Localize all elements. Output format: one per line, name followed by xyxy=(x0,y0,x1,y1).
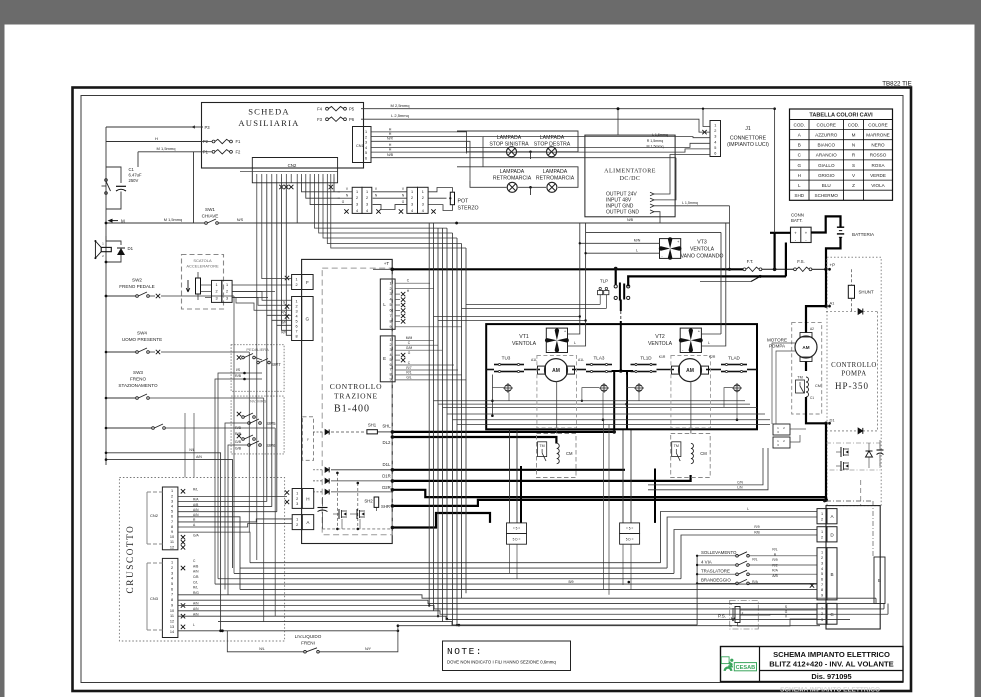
svg-text:LAMPADA: LAMPADA xyxy=(543,169,568,175)
label A1L xyxy=(531,358,584,362)
svg-text:Z: Z xyxy=(852,183,855,188)
svg-text:R/1: R/1 xyxy=(406,371,411,375)
diode DL2 row xyxy=(313,429,364,434)
svg-text:VENTOLA: VENTOLA xyxy=(690,247,715,253)
svg-text:P3: P3 xyxy=(205,125,211,130)
svg-text:+P: +P xyxy=(830,263,836,268)
svg-text:R/N: R/N xyxy=(281,331,287,335)
connector C (right) xyxy=(817,603,837,624)
pump controller dotted box xyxy=(827,257,881,505)
svg-text:R/B: R/B xyxy=(235,432,242,436)
svg-text:2: 2 xyxy=(714,129,716,133)
svg-text:R/B: R/B xyxy=(754,531,760,535)
wires into pot pair1 xyxy=(338,192,353,205)
svg-text:DL2: DL2 xyxy=(383,440,391,445)
svg-text:POMPA: POMPA xyxy=(841,371,866,378)
svg-text:K1R: K1R xyxy=(659,355,666,359)
thick wire DL2-CM1 xyxy=(391,435,557,443)
svg-text:G/B: G/B xyxy=(235,440,242,444)
capacitor B1-400 xyxy=(318,497,328,529)
accel potentiometer xyxy=(186,272,200,300)
svg-text:AM: AM xyxy=(552,368,560,374)
svg-text:1: 1 xyxy=(411,190,413,194)
TLP thick wires xyxy=(621,276,786,371)
svg-text:A/N: A/N xyxy=(193,570,199,574)
pump capacitor xyxy=(877,440,884,466)
P.S. dashdot box xyxy=(730,600,759,629)
svg-text:1: 1 xyxy=(226,283,228,287)
svg-text:1: 1 xyxy=(821,530,823,534)
svg-text:14: 14 xyxy=(170,630,174,634)
wire L 2,5mmq xyxy=(361,113,710,132)
svg-text:H: H xyxy=(389,148,392,152)
cn2 drops to G xyxy=(267,183,292,512)
svg-text:1: 1 xyxy=(296,491,298,495)
thick CM1 verticals xyxy=(510,429,522,523)
svg-text:4: 4 xyxy=(366,209,368,213)
svg-text:TLP: TLP xyxy=(600,278,608,283)
svg-text:F.S.: F.S. xyxy=(797,259,805,264)
svg-text:CM: CM xyxy=(815,384,821,388)
svg-text:R/B: R/B xyxy=(235,426,242,430)
battery thick wires xyxy=(770,107,841,276)
CN2 x-marks xyxy=(279,185,333,189)
accelerator box SCATOLA ACCELERATORE xyxy=(182,255,224,310)
svg-text:STAZIONAMENTO: STAZIONAMENTO xyxy=(118,383,158,388)
svg-text:CN1: CN1 xyxy=(356,144,364,148)
wire M to scheda xyxy=(138,146,202,223)
svg-text:LAMPADA: LAMPADA xyxy=(500,169,525,175)
note box xyxy=(443,641,571,671)
contactor TLA3 xyxy=(586,363,612,372)
svg-text:SCHEDA: SCHEDA xyxy=(248,107,290,117)
svg-text:F3: F3 xyxy=(317,117,323,122)
relay box left wires xyxy=(510,420,610,595)
svg-text:CM: CM xyxy=(566,451,573,456)
svg-text:1: 1 xyxy=(296,278,298,282)
svg-text:Dis. 971095: Dis. 971095 xyxy=(811,672,851,681)
svg-text:TB822 TIE: TB822 TIE xyxy=(882,81,911,88)
pump TM switch xyxy=(796,376,805,394)
svg-text:9: 9 xyxy=(171,530,173,534)
svg-text:SOLLEVAMENTO: SOLLEVAMENTO xyxy=(701,550,737,555)
fuse F.T. xyxy=(743,259,793,271)
svg-text:N/Y: N/Y xyxy=(365,647,372,651)
P.S. wires xyxy=(738,605,818,626)
sheet inner border xyxy=(81,96,903,683)
contactor TLP xyxy=(614,267,630,301)
svg-text:D2R: D2R xyxy=(382,485,391,490)
svg-text:C/L: C/L xyxy=(193,580,198,584)
pump +P vertical xyxy=(825,269,827,306)
lamp retromarcia 1 xyxy=(507,182,517,192)
fuse F4-P5 xyxy=(317,107,355,112)
svg-text:L: L xyxy=(383,302,386,307)
+T power bus xyxy=(373,268,744,272)
svg-text:TRASLATORE: TRASLATORE xyxy=(701,569,730,574)
label SCHEDA AUSILIARIA xyxy=(238,107,299,129)
svg-text:R 1,5mmq: R 1,5mmq xyxy=(647,139,664,143)
svg-text:2: 2 xyxy=(365,135,367,139)
svg-text:5: 5 xyxy=(365,151,367,155)
svg-text:6: 6 xyxy=(171,515,173,519)
svg-text:R/L: R/L xyxy=(752,558,757,562)
svg-text:BATT.: BATT. xyxy=(791,218,803,223)
svg-text:6: 6 xyxy=(389,363,391,367)
svg-text:TM: TM xyxy=(539,444,544,448)
svg-text:VIOLA: VIOLA xyxy=(871,183,885,188)
svg-text:A1L: A1L xyxy=(578,358,584,362)
label LAMPADA RETROMARCIA 1 xyxy=(493,169,532,181)
label K1R xyxy=(659,355,716,359)
svg-text:K2R: K2R xyxy=(709,355,716,359)
CN2 pin row xyxy=(256,174,334,183)
svg-text:1: 1 xyxy=(366,190,368,194)
wire H to scheda xyxy=(106,136,202,142)
svg-text:VANO COMANDO: VANO COMANDO xyxy=(681,254,724,260)
cn2 drop to F xyxy=(262,183,292,279)
svg-text:3: 3 xyxy=(296,309,298,313)
svg-text:NOTE:: NOTE: xyxy=(447,646,483,657)
svg-text:5 D =: 5 D = xyxy=(513,538,521,542)
svg-text:CN2: CN2 xyxy=(288,163,297,168)
lamp stop destra xyxy=(547,147,557,157)
cruscotto wire labels xyxy=(193,488,199,628)
svg-text:5: 5 xyxy=(296,319,298,323)
viewer top bar xyxy=(0,0,981,25)
alim riser 1 xyxy=(654,155,710,195)
svg-text:7: 7 xyxy=(296,329,298,333)
svg-text:5: 5 xyxy=(389,358,391,362)
svg-text:5: 5 xyxy=(714,146,716,150)
svg-text:N/S: N/S xyxy=(237,217,244,222)
motor mid thick verticals xyxy=(612,369,634,429)
svg-text:12: 12 xyxy=(170,619,174,623)
thick wire SHL xyxy=(391,430,616,434)
thick wire SHR xyxy=(391,498,828,508)
svg-text:F: F xyxy=(306,280,309,285)
svg-text:1: 1 xyxy=(171,561,173,565)
thermal sensor 1 xyxy=(503,383,513,393)
svg-text:3: 3 xyxy=(389,292,391,296)
label LAMPADA STOP SINISTRA xyxy=(489,135,529,147)
svg-text:H: H xyxy=(389,143,392,147)
svg-text:AZZURRO: AZZURRO xyxy=(815,132,838,137)
wire P3 left xyxy=(106,126,191,128)
svg-text:N: N xyxy=(852,143,855,148)
svg-text:R/A: R/A xyxy=(772,569,778,573)
svg-text:6: 6 xyxy=(365,157,367,161)
A D wire labels xyxy=(747,507,760,535)
traction controller dashed box xyxy=(322,268,392,535)
alim riser 2 xyxy=(654,158,676,200)
x-mark B7 xyxy=(810,583,814,587)
diode pump top xyxy=(826,309,878,315)
mosfet Q2 xyxy=(350,509,365,519)
svg-text:SW5: SW5 xyxy=(266,421,276,426)
svg-text:4: 4 xyxy=(171,505,173,509)
b1-400 bottom dashed wires xyxy=(322,472,391,531)
svg-text:INV. MRS: INV. MRS xyxy=(249,399,267,404)
svg-text:4: 4 xyxy=(296,314,298,318)
fuse F2 xyxy=(202,150,242,155)
long row N/L xyxy=(105,448,221,631)
svg-text:3: 3 xyxy=(366,203,368,207)
svg-text:A/B: A/B xyxy=(193,564,199,568)
central wire highway xyxy=(428,223,466,626)
label B1-400 xyxy=(334,404,370,415)
label +P xyxy=(824,263,835,272)
thick wire D2R xyxy=(391,488,826,497)
CN1 wire 2 xyxy=(371,132,710,167)
svg-text:9: 9 xyxy=(389,378,391,382)
TLP aux contact xyxy=(462,287,609,308)
diode D2R xyxy=(313,485,392,495)
svg-text:4 VIA: 4 VIA xyxy=(701,559,712,564)
svg-text:P6: P6 xyxy=(349,117,355,122)
traction controller solid box xyxy=(302,259,393,543)
svg-text:250V: 250V xyxy=(129,178,139,183)
svg-text:2: 2 xyxy=(296,497,298,501)
svg-text:5: 5 xyxy=(171,582,173,586)
motor power box xyxy=(486,324,757,429)
lift/tilt switches xyxy=(696,550,749,625)
cable color table TABELLA COLORI CAVI xyxy=(790,109,893,200)
svg-text:6: 6 xyxy=(821,577,823,581)
svg-text:BRANDEGGIO: BRANDEGGIO xyxy=(701,578,731,583)
svg-text:9: 9 xyxy=(389,325,391,329)
pump bottom dashdot xyxy=(826,443,880,470)
label VT1 VENTOLA xyxy=(512,334,537,347)
svg-text:3: 3 xyxy=(821,561,823,565)
svg-text:BLITZ 412+420 - INV. AL VOLANT: BLITZ 412+420 - INV. AL VOLANTE xyxy=(769,660,893,669)
contactor TL1D xyxy=(631,363,657,372)
svg-text:2: 2 xyxy=(821,517,823,521)
pump zener xyxy=(866,443,873,468)
label CONTROLLO POMPA xyxy=(831,362,877,378)
svg-text:4: 4 xyxy=(365,146,367,150)
svg-text:LIV.LIQUIDO: LIV.LIQUIDO xyxy=(295,634,322,639)
shunt SH2 xyxy=(364,497,390,511)
contactor TU3 xyxy=(494,363,524,372)
thick CM2 verticals xyxy=(623,429,655,523)
thick wire D1L xyxy=(391,468,625,472)
svg-text:PEDALIERA: PEDALIERA xyxy=(246,347,269,352)
svg-text:SH2: SH2 xyxy=(364,499,373,504)
svg-text:L/N: L/N xyxy=(737,485,743,489)
svg-text:AUSILIARIA: AUSILIARIA xyxy=(238,118,299,128)
svg-text:CESAB: CESAB xyxy=(736,665,756,671)
pump motor AM xyxy=(795,327,817,362)
diode D1 xyxy=(106,236,134,262)
svg-text:L 1,5mmq: L 1,5mmq xyxy=(652,133,668,137)
svg-text:8: 8 xyxy=(389,373,391,377)
horn speaker xyxy=(94,240,111,259)
left drops to cruscotto xyxy=(185,296,275,622)
svg-text:HP-350: HP-350 xyxy=(835,381,869,391)
motor row wires xyxy=(486,369,757,371)
svg-text:A/B: A/B xyxy=(772,574,778,578)
svg-text:SW1: SW1 xyxy=(205,207,215,212)
thermal sensor 2 xyxy=(599,383,609,393)
switch wire labels xyxy=(772,548,778,579)
svg-text:9: 9 xyxy=(821,594,823,598)
svg-text:SW3: SW3 xyxy=(133,370,143,375)
svg-text:VT1: VT1 xyxy=(519,334,529,340)
svg-text:P5: P5 xyxy=(349,107,355,112)
label D1 pump xyxy=(824,418,835,426)
switch SW7 xyxy=(231,354,281,381)
svg-text:G: G xyxy=(408,351,411,355)
node M arrow xyxy=(108,219,126,224)
svg-text:3: 3 xyxy=(365,141,367,145)
svg-text:G/A: G/A xyxy=(193,533,199,537)
svg-text:A1L: A1L xyxy=(531,358,537,362)
svg-text:TL1D: TL1D xyxy=(640,356,652,361)
svg-text:13: 13 xyxy=(170,625,174,629)
svg-text:2: 2 xyxy=(216,290,218,294)
svg-text:M/M: M/M xyxy=(406,336,413,340)
wires pair1-pair2 pot xyxy=(342,187,407,209)
svg-text:R/9: R/9 xyxy=(772,558,777,562)
svg-text:2: 2 xyxy=(389,287,391,291)
svg-text:TLAD: TLAD xyxy=(728,356,740,361)
motor area rows xyxy=(434,401,771,425)
svg-text:C/N: C/N xyxy=(737,480,743,484)
connector CN3 cruscotto xyxy=(147,558,178,637)
svg-text:3: 3 xyxy=(171,571,173,575)
svg-text:R/V: R/V xyxy=(281,311,287,315)
svg-text:8: 8 xyxy=(171,598,173,602)
viewer left strip xyxy=(0,0,5,697)
svg-text:2: 2 xyxy=(356,196,358,200)
svg-text:A1: A1 xyxy=(830,301,836,306)
svg-text:3: 3 xyxy=(171,499,173,503)
svg-text:H: H xyxy=(306,496,309,501)
relay box right xyxy=(620,523,640,544)
svg-text:F2: F2 xyxy=(236,150,242,155)
svg-text:D1: D1 xyxy=(830,418,836,423)
svg-text:L: L xyxy=(747,507,749,511)
label MOTORE POMPA xyxy=(767,338,787,349)
field coil box CM left xyxy=(537,434,577,478)
connector B (right) xyxy=(817,548,837,600)
pump coil thick bottom xyxy=(806,397,826,423)
svg-text:F.T.: F.T. xyxy=(747,259,754,264)
connector A (right) xyxy=(817,509,837,524)
svg-text:UOMO PRESENTE: UOMO PRESENTE xyxy=(122,337,162,342)
svg-text:1: 1 xyxy=(714,124,716,128)
svg-text:M 1,5mmq: M 1,5mmq xyxy=(157,146,176,151)
svg-text:2: 2 xyxy=(821,556,823,560)
svg-text:R/7: R/7 xyxy=(406,366,411,370)
svg-text:10: 10 xyxy=(170,609,174,613)
svg-text:MARRONE: MARRONE xyxy=(866,132,889,137)
lamp retromarcia 2 xyxy=(547,182,557,192)
battery symbol xyxy=(837,227,875,237)
svg-text:VERDE: VERDE xyxy=(870,173,886,178)
svg-text:4: 4 xyxy=(411,209,413,213)
svg-text:2: 2 xyxy=(296,523,298,527)
svg-text:7: 7 xyxy=(389,368,391,372)
pedal box PEDALIERA xyxy=(231,345,284,392)
svg-text:7: 7 xyxy=(821,583,823,587)
svg-text:DOVE NON INDICATO I FILI HANNO: DOVE NON INDICATO I FILI HANNO SEZIONE 0… xyxy=(447,660,556,665)
dashboard box CRUSCOTTO xyxy=(119,478,284,642)
svg-text:B: B xyxy=(878,578,881,583)
wire M 2,5mmq xyxy=(361,103,775,135)
svg-text:SW6: SW6 xyxy=(266,443,276,448)
svg-text:1: 1 xyxy=(356,190,358,194)
svg-text:6: 6 xyxy=(296,324,298,328)
svg-text:F1: F1 xyxy=(236,139,242,144)
svg-text:4: 4 xyxy=(171,577,173,581)
key bus wire xyxy=(106,217,730,224)
sheet code TB822 TIE xyxy=(882,81,911,88)
svg-text:N/L: N/L xyxy=(189,448,194,452)
label SW1 CHIAVE xyxy=(202,207,219,219)
input gnd vertical xyxy=(728,206,731,271)
svg-text:8: 8 xyxy=(296,334,298,338)
svg-text:A/N: A/N xyxy=(196,455,202,459)
svg-text:8: 8 xyxy=(821,588,823,592)
svg-text:CHIAVE: CHIAVE xyxy=(202,214,219,219)
svg-text:GRIGIO: GRIGIO xyxy=(818,173,835,178)
cn2 rows to highway xyxy=(314,183,466,248)
label P.S. xyxy=(718,614,726,619)
svg-text:11: 11 xyxy=(170,614,174,618)
auxiliary board SCHEDA AUSILIARIA box xyxy=(202,103,364,169)
svg-text:2: 2 xyxy=(422,196,424,200)
svg-text:CM: CM xyxy=(700,451,707,456)
svg-text:3: 3 xyxy=(216,297,218,301)
accel wires right xyxy=(232,285,292,298)
H A left wires xyxy=(0,0,1,1)
motor inner wires left xyxy=(491,375,604,434)
pump motor thick loop xyxy=(806,306,826,371)
svg-text:R/9: R/9 xyxy=(754,525,759,529)
svg-text:H: H xyxy=(389,127,392,131)
svg-text:7: 7 xyxy=(389,314,391,318)
svg-text:8: 8 xyxy=(171,525,173,529)
svg-text:CONTROLLO: CONTROLLO xyxy=(330,382,383,391)
svg-text:R/L: R/L xyxy=(193,586,198,590)
cruscotto x-marks xyxy=(181,489,185,629)
label TLP xyxy=(600,278,608,283)
svg-text:NERO: NERO xyxy=(871,143,885,148)
svg-text:ALIMENTATORE: ALIMENTATORE xyxy=(604,169,656,175)
connector D (right) xyxy=(817,527,837,542)
svg-text:6: 6 xyxy=(171,587,173,591)
svg-text:3: 3 xyxy=(714,135,716,139)
svg-text:G: G xyxy=(306,317,310,322)
svg-text:BLU: BLU xyxy=(822,183,831,188)
bundle dots xyxy=(397,581,630,632)
label +T xyxy=(384,261,390,266)
brake fluid loop xyxy=(178,624,820,653)
label LAMPADA RETROMARCIA 2 xyxy=(536,169,575,181)
svg-text:2: 2 xyxy=(366,196,368,200)
bottom wire bundle xyxy=(178,512,888,625)
svg-text:+T: +T xyxy=(384,261,390,266)
svg-text:AM: AM xyxy=(686,368,694,374)
thermal sensor 4 xyxy=(732,383,742,393)
svg-text:B/9: B/9 xyxy=(568,580,573,584)
switch SW5 xyxy=(231,412,276,426)
svg-text:2: 2 xyxy=(171,494,173,498)
svg-text:3: 3 xyxy=(411,203,413,207)
svg-text:VT3: VT3 xyxy=(697,240,707,246)
